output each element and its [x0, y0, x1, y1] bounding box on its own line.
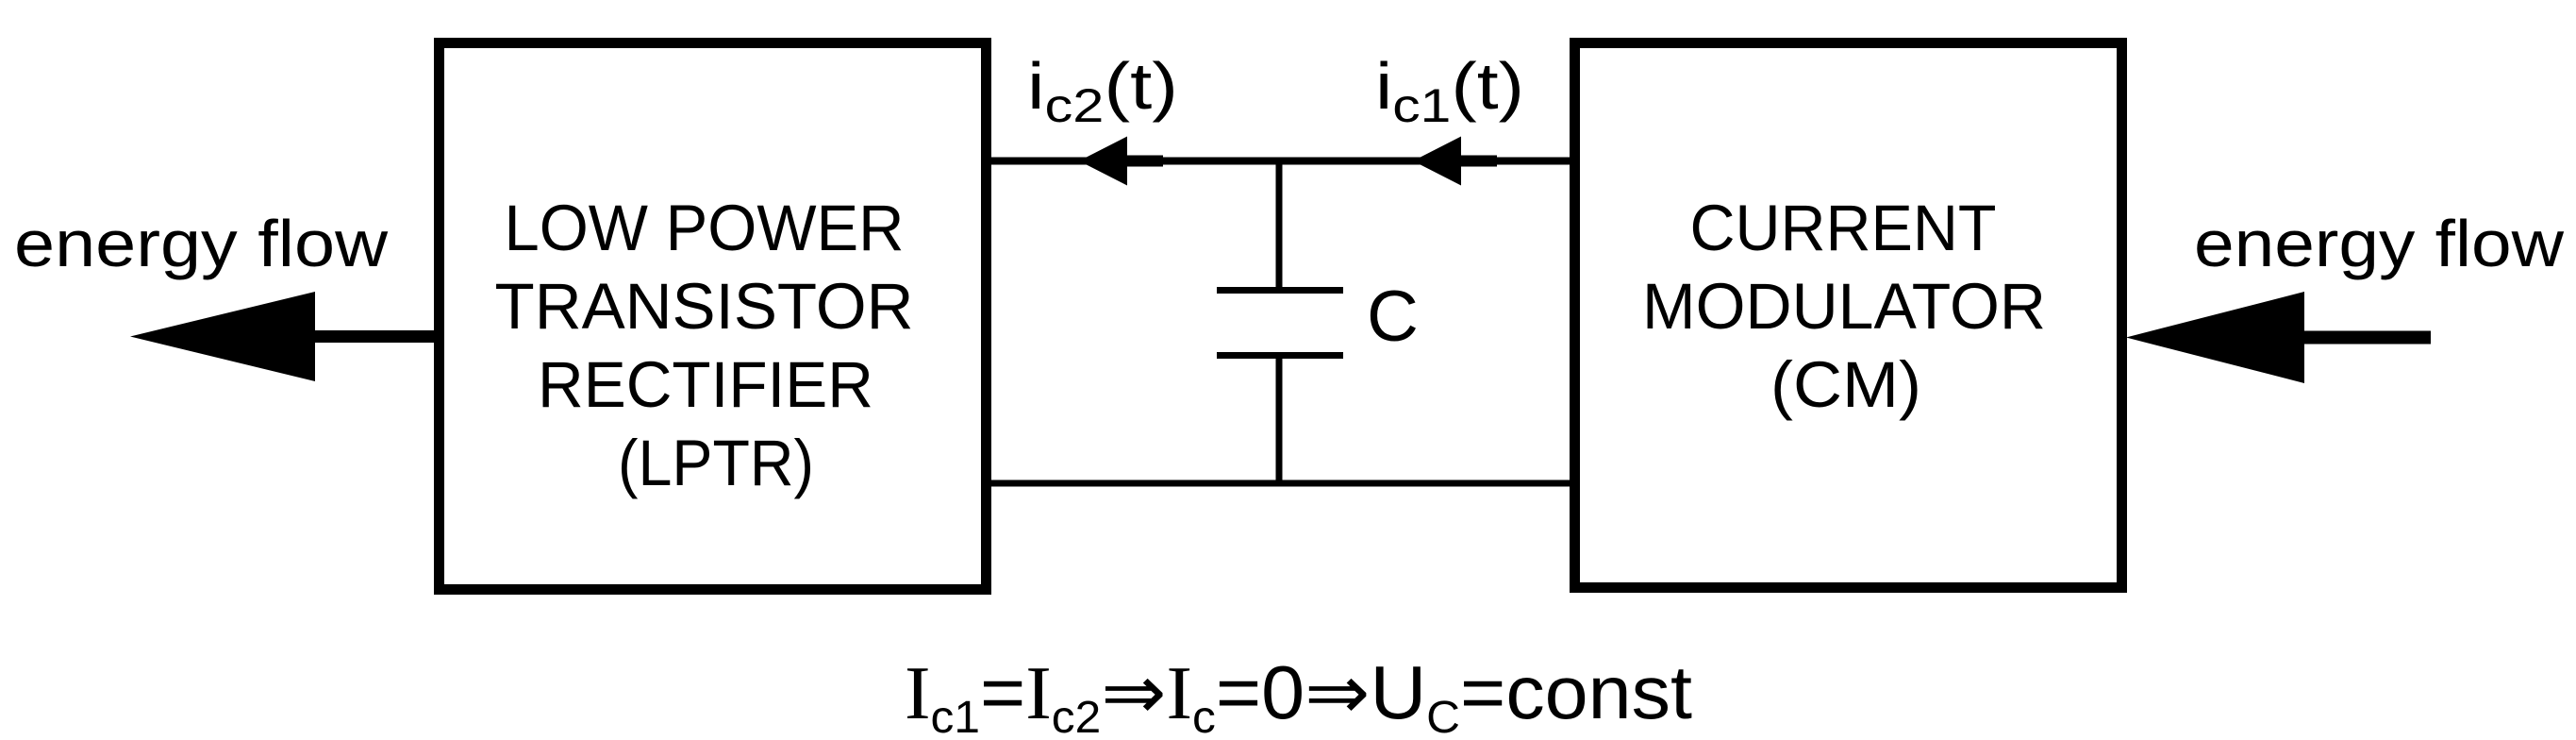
wire bottom net from CM to LPTR	[991, 480, 1570, 487]
arrowhead ic1 on top wire	[1413, 137, 1497, 186]
capacitor C bottom plate	[1217, 352, 1343, 359]
label energy flow right	[2194, 207, 2564, 280]
wire capacitor top lead	[1276, 160, 1283, 291]
block U1 label LOW POWER TRANSISTOR RECTIFIER (LPTR)	[495, 192, 914, 499]
wire capacitor bottom lead	[1276, 356, 1283, 484]
svg-text:LOW POWER: LOW POWER	[505, 192, 905, 264]
label energy flow left	[14, 207, 388, 280]
svg-text:(LPTR): (LPTR)	[618, 427, 814, 499]
svg-text:energy flow: energy flow	[2194, 207, 2564, 280]
energy flow arrow right	[2126, 292, 2431, 383]
svg-text:CURRENT: CURRENT	[1690, 192, 1997, 264]
block U2 CM	[1575, 43, 2122, 588]
capacitor value label C	[1367, 277, 1419, 357]
label ic2(t)	[1027, 49, 1178, 132]
formula Ic1=Ic2 implies Ic=0 implies Uc=const	[905, 650, 1692, 740]
svg-text:(CM): (CM)	[1770, 348, 1921, 421]
arrowhead ic2 on top wire	[1079, 137, 1163, 186]
svg-text:MODULATOR: MODULATOR	[1642, 270, 2046, 343]
svg-text:Ic1=Ic2⇒Ic=0⇒UC=const: Ic1=Ic2⇒Ic=0⇒UC=const	[905, 650, 1692, 740]
svg-text:TRANSISTOR: TRANSISTOR	[495, 270, 914, 343]
wire top net from CM to LPTR	[991, 158, 1570, 165]
svg-text:C: C	[1367, 277, 1419, 357]
block U1 LPTR	[440, 43, 987, 590]
label ic1(t)	[1375, 49, 1524, 132]
svg-text:RECTIFIER: RECTIFIER	[538, 348, 873, 421]
capacitor C top plate	[1217, 287, 1343, 294]
block U2 label CURRENT MODULATOR (CM)	[1642, 192, 2046, 421]
energy flow arrow left	[130, 292, 435, 381]
svg-text:energy flow: energy flow	[14, 207, 388, 280]
